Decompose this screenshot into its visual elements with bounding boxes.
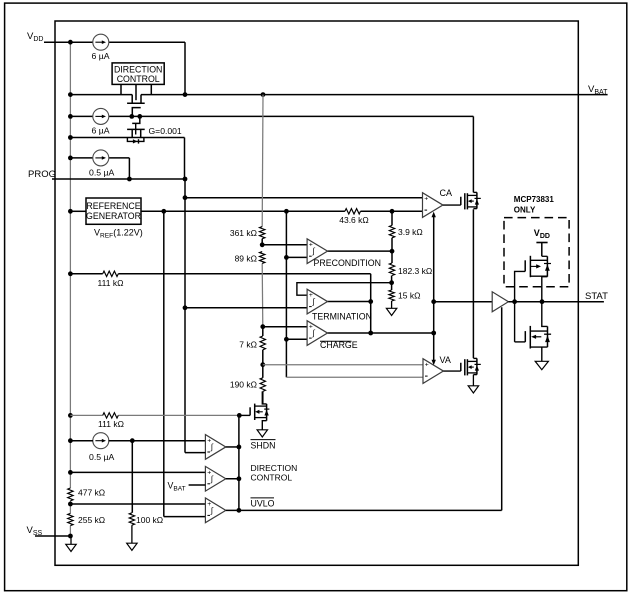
wire STAT node line — [508, 299, 604, 304]
wire UVLO+ line from 477k/255k tap — [70, 503, 205, 505]
svg-text:89 kΩ: 89 kΩ — [235, 253, 257, 263]
svg-text:CONTROL: CONTROL — [117, 74, 160, 84]
svg-text:255 kΩ: 255 kΩ — [78, 515, 105, 525]
node PROG rail x=185 down to comparators — [183, 179, 188, 453]
op-amp UVLO comparator — [205, 498, 225, 523]
wire battery divider rail x=262 — [260, 95, 265, 404]
label SHDN with overline — [251, 440, 276, 451]
wire reference line VREF 1.22V — [70, 209, 422, 214]
ground below 15k — [386, 308, 396, 315]
wire 100k branch — [131, 441, 133, 513]
svg-text:PROG: PROG — [28, 169, 56, 180]
resistor 3.9k — [389, 225, 422, 237]
current source 6uA (mirror) — [92, 108, 110, 135]
svg-text:STAT: STAT — [585, 291, 608, 302]
pin label VBAT — [588, 84, 608, 96]
transistor Q2 mirror PMOS — [132, 108, 141, 124]
ground below VSS node — [66, 536, 76, 552]
wire CHARGE output — [328, 331, 437, 336]
resistor 7k — [239, 336, 265, 350]
node status vertical x=370.7 — [368, 274, 373, 336]
wire 0.5uA source to PROG line — [70, 158, 129, 179]
wires DIRECTION CONTROL box stubs — [121, 84, 151, 100]
wire UVLO output to STAT buffer enable — [226, 307, 502, 510]
label MCP73831 ONLY — [514, 195, 555, 214]
pin label VSS and wire — [27, 525, 71, 537]
node VDD rail (vertical, with taps) — [68, 40, 73, 539]
wire VA+ input from divider tap — [263, 364, 423, 366]
transistor STAT high-side PMOS — [515, 256, 551, 302]
label G=0.001 — [149, 126, 182, 136]
op-amp CA (current amplifier) — [423, 188, 453, 217]
power symbol VDD in dashed box — [534, 228, 550, 256]
resistor 255k — [68, 513, 105, 525]
svg-text:+: + — [425, 362, 429, 369]
svg-text:MCP73831: MCP73831 — [514, 195, 555, 204]
wire TERMINATION+ hook to 182.3k/15k junction — [297, 283, 392, 296]
svg-text:SHDN: SHDN — [251, 440, 276, 450]
transistor VA pass MOSFET — [443, 358, 480, 375]
svg-text:111 kΩ: 111 kΩ — [98, 278, 124, 288]
svg-text:+: + — [424, 196, 428, 203]
svg-text:15 kΩ: 15 kΩ — [398, 291, 420, 301]
op-amp PRECONDITION — [307, 239, 381, 268]
wire CA+ input line (prog signal) — [185, 197, 423, 199]
wire G=0.001 output line — [70, 138, 184, 180]
current source 0.5uA (prog) — [89, 150, 114, 178]
transistor SHDN MOSFET — [239, 391, 269, 429]
wire 111k pull line — [70, 273, 370, 275]
ground below VA MOSFET — [468, 375, 478, 393]
svg-text:TERMINATION: TERMINATION — [312, 312, 372, 322]
svg-text:REFERENCE: REFERENCE — [86, 201, 140, 211]
resistor 477k — [68, 488, 105, 501]
svg-text:6 µA: 6 µA — [92, 126, 110, 136]
block REFERENCE GENERATOR — [86, 198, 141, 224]
wire CHARGE- input — [286, 338, 307, 340]
label VBAT at comparator - input — [168, 481, 206, 493]
wire PROG pin line — [52, 177, 187, 182]
svg-text:100 kΩ: 100 kΩ — [136, 515, 163, 525]
resistor 182.3k — [389, 263, 432, 276]
label DIRECTION CONTROL — [251, 463, 298, 482]
resistor 190k — [230, 378, 266, 392]
wire VDD pin to 6uA source — [44, 42, 185, 94]
svg-text:6 µA: 6 µA — [92, 51, 110, 61]
svg-text:3.9 kΩ: 3.9 kΩ — [398, 227, 423, 237]
current source 0.5uA (shutdown ref) — [89, 433, 114, 462]
svg-text:UVLO: UVLO — [251, 498, 275, 508]
svg-text:43.6 kΩ: 43.6 kΩ — [339, 215, 369, 225]
wire 6uA mirror line to CA pass transistor — [70, 114, 473, 119]
resistor 111k (top) — [98, 271, 124, 288]
svg-text:361 kΩ: 361 kΩ — [230, 228, 257, 238]
svg-text:GENERATOR: GENERATOR — [86, 211, 141, 221]
wire 0.5uA line to SHDN+ — [70, 438, 205, 443]
wire TERMINATION output — [328, 301, 371, 303]
current source 6uA (top) — [92, 34, 110, 61]
svg-text:VA: VA — [440, 355, 451, 365]
svg-text:111 kΩ: 111 kΩ — [98, 419, 124, 429]
wire feedback divider rail x=392 (3.9k/182.3k/15k) — [389, 211, 394, 308]
label UVLO with overline — [251, 498, 275, 509]
IC boundary box — [55, 21, 578, 565]
svg-text:190 kΩ: 190 kΩ — [230, 380, 257, 390]
wire VREF rail x=286.4 (PRECON-/CHARGE-/VA-) — [284, 211, 289, 377]
buffer STAT driver — [492, 292, 508, 312]
wire TERMINATION- input — [185, 307, 307, 309]
svg-text:0.5 µA: 0.5 µA — [89, 167, 114, 177]
resistor 89k — [235, 252, 265, 264]
wire PRECONDITION output to 3.9k/182.3k junction — [328, 250, 393, 252]
resistor 100k — [129, 513, 163, 525]
transistor STAT low-side NMOS — [515, 302, 552, 362]
resistor 111k (bottom) — [98, 413, 124, 429]
transistor Q1 direction-control pass PMOS — [127, 95, 145, 104]
pin label VDD — [27, 31, 43, 43]
ground below STAT NMOS — [535, 361, 548, 369]
svg-text:CONTROL: CONTROL — [251, 472, 293, 482]
svg-text:0.5 µA: 0.5 µA — [89, 452, 114, 462]
svg-text:7 kΩ: 7 kΩ — [239, 340, 257, 350]
wire VREF rail x=163.8 to UVLO- — [164, 211, 206, 516]
svg-text:PRECONDITION: PRECONDITION — [314, 258, 381, 268]
svg-text:477 kΩ: 477 kΩ — [78, 488, 105, 498]
node status vertical x=433.7 with enable arrows to CA and VA — [431, 212, 436, 366]
wire PRECONDITION+ input from 361k/89k junction — [262, 244, 307, 246]
resistor 361k — [230, 227, 265, 239]
wire PRECONDITION- input — [286, 256, 307, 258]
wire direction-control comparator + line — [70, 471, 205, 473]
wire CA/VA drain rail x=473.4 — [472, 116, 474, 358]
pin label STAT — [585, 291, 608, 302]
ground below SHDN MOSFET — [257, 430, 267, 437]
transistor Q3 G=0.001 sense FET with body diode — [127, 123, 145, 143]
wire SHDN- hook from x=185 rail — [185, 452, 205, 454]
svg-text:CA: CA — [440, 188, 453, 198]
svg-text:182.3 kΩ: 182.3 kΩ — [398, 266, 432, 276]
pin label PROG — [28, 169, 56, 180]
dashed box MCP73831 only — [504, 218, 569, 287]
op-amp TERMINATION — [307, 289, 372, 321]
svg-text:DIRECTION: DIRECTION — [114, 64, 162, 74]
op-amp DIRECTION CONTROL comparator — [205, 466, 225, 491]
label VREF(1.22V) — [94, 228, 143, 240]
block DIRECTION CONTROL — [112, 63, 164, 85]
resistor 43.6k — [339, 209, 369, 225]
ground below 100k — [127, 525, 137, 550]
resistor 15k — [389, 290, 421, 301]
node comparator output rail x=238.9 — [226, 413, 242, 513]
wire 111k to SHDN MOSFET gate (gray) — [70, 414, 239, 416]
op-amp VA (voltage amplifier) — [423, 355, 451, 383]
svg-text:G=0.001: G=0.001 — [149, 126, 182, 136]
svg-text:ONLY: ONLY — [514, 205, 536, 214]
wire CHARGE+ input from 7k top — [263, 326, 307, 328]
op-amp SHDN comparator — [205, 435, 225, 460]
wire status node to STAT buffer — [434, 301, 493, 303]
op-amp CHARGE (with overline) — [307, 321, 358, 350]
transistor CA pass MOSFET — [443, 192, 481, 209]
wire VA- input — [286, 376, 423, 378]
wire VBAT line — [70, 92, 607, 97]
